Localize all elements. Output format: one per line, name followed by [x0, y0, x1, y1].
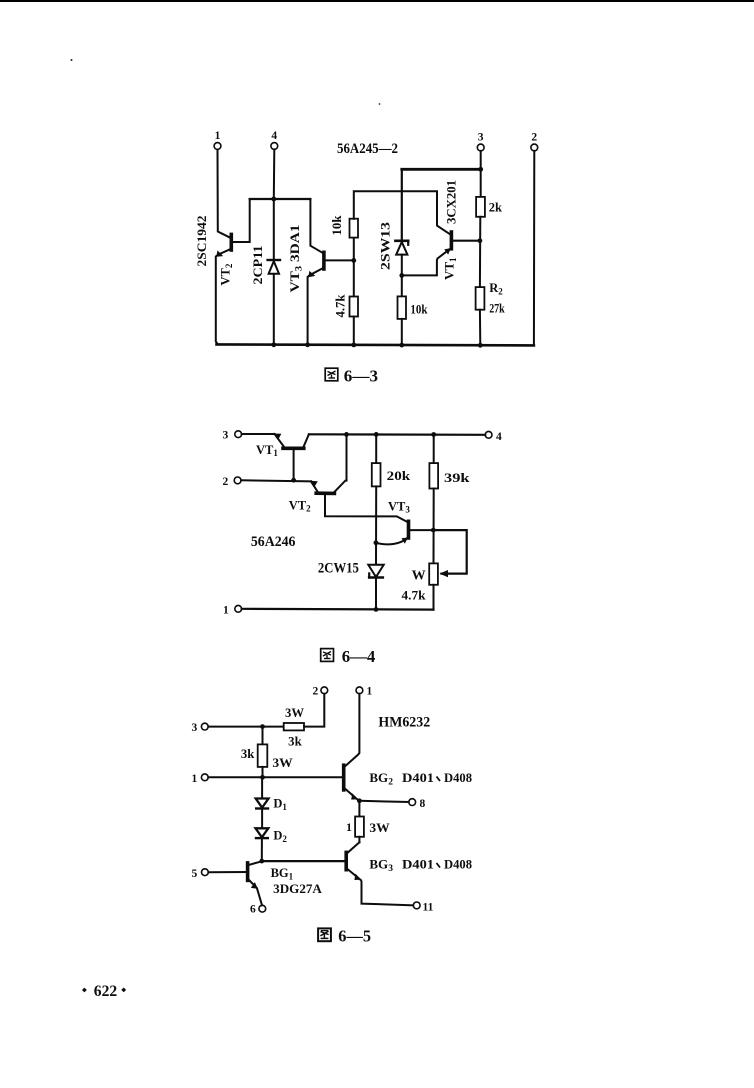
svg-text:2: 2 — [313, 686, 319, 698]
top rail — [309, 433, 485, 436]
resistor R2 27k — [476, 287, 485, 310]
wire terminal3 row — [208, 726, 283, 728]
svg-text:VT3 3DA1: VT3 3DA1 — [287, 225, 304, 293]
svg-text:D408: D408 — [444, 858, 472, 872]
zener 2SW13 branch — [401, 169, 403, 240]
VT3 base wire — [409, 529, 434, 531]
wire terminal 3 branch — [480, 151, 482, 197]
terminal 3 left — [201, 723, 208, 730]
transistor VT3 base bar — [407, 521, 411, 538]
svg-text:27k: 27k — [489, 302, 505, 316]
wire terminal2 to VT2 emitter — [241, 480, 311, 481]
terminal 11 — [413, 902, 420, 909]
transistor VT2 emitter — [311, 481, 318, 492]
svg-text:1: 1 — [215, 130, 221, 142]
svg-text:HM6232: HM6232 — [378, 714, 430, 730]
svg-text:56A245—2: 56A245—2 — [337, 141, 398, 157]
svg-text:4.7k: 4.7k — [334, 294, 348, 317]
svg-text:6—3: 6—3 — [344, 366, 378, 385]
resistor 3k vertical 3W — [262, 727, 264, 745]
svg-text:2: 2 — [223, 476, 229, 488]
svg-text:W: W — [412, 569, 426, 584]
svg-text:3W: 3W — [285, 706, 305, 720]
svg-text:2SC1942: 2SC1942 — [194, 216, 209, 267]
VT2 emitter — [216, 249, 232, 345]
svg-text:2CP11: 2CP11 — [250, 246, 265, 285]
transistor VT1 3CX201 base bar — [450, 232, 454, 249]
junction VT3 emitter at rail — [305, 342, 310, 347]
transistor BG3 base bar — [344, 852, 348, 869]
BG1 base wire — [208, 871, 247, 873]
svg-text:2k: 2k — [489, 201, 502, 215]
zener 2SW13 symbol — [395, 240, 408, 243]
terminal 1 top — [356, 687, 363, 694]
terminal 1 — [235, 605, 242, 612]
wire terminal3 to VT1 emitter — [242, 433, 275, 435]
wire node A horizontal — [250, 198, 311, 200]
zener 2CW15 — [368, 565, 383, 577]
svg-text:2SW13: 2SW13 — [379, 222, 393, 270]
svg-text:4: 4 — [496, 431, 502, 443]
svg-text:10k: 10k — [330, 215, 344, 235]
top wire to terminal 3 — [402, 168, 481, 171]
resistor 2k — [476, 197, 485, 217]
terminal 4 — [271, 143, 278, 150]
svg-text:D408: D408 — [444, 771, 472, 785]
junction 20k on rail — [374, 432, 379, 437]
terminal 8 — [409, 799, 416, 806]
BG3 base wire — [262, 860, 346, 862]
resistor 10k upper — [353, 238, 355, 261]
BG3 collector — [346, 842, 359, 854]
BG2 collector — [344, 694, 360, 768]
svg-text:8: 8 — [420, 798, 426, 810]
terminal 1 — [214, 143, 221, 150]
terminal 2 top — [321, 687, 328, 694]
resistor 3k horizontal 3W — [284, 723, 304, 730]
transistor BG2 base bar — [342, 765, 346, 790]
resistor 10k lower — [398, 296, 407, 319]
VT3 emitter curve — [376, 537, 409, 545]
junction 39k on rail — [431, 432, 436, 437]
node A junction — [271, 197, 276, 202]
resistor 1 ohm 3W — [358, 801, 360, 817]
svg-text:1: 1 — [367, 686, 373, 698]
terminal 4 — [485, 431, 492, 438]
svg-text:6—4: 6—4 — [342, 647, 376, 666]
VT1 collector — [303, 434, 309, 447]
svg-text:D401: D401 — [402, 858, 434, 872]
wire VT2 base to node A — [231, 199, 249, 242]
wiper loop — [433, 530, 466, 574]
node divider junction — [351, 258, 356, 263]
svg-text:3DG27A: 3DG27A — [273, 881, 322, 896]
wire 2CP11 branch — [273, 149, 276, 258]
transistor VT1 emitter — [275, 434, 285, 448]
svg-text:5: 5 — [192, 868, 198, 880]
VT1 base wire — [451, 240, 480, 242]
svg-text:3CX201: 3CX201 — [444, 180, 459, 224]
svg-text:4.7k: 4.7k — [402, 588, 427, 603]
VT2 base lead to VT3 collector — [325, 493, 408, 522]
svg-text:6—5: 6—5 — [338, 927, 371, 946]
wire VT3 base to divider — [324, 259, 354, 261]
svg-text:3: 3 — [192, 722, 198, 734]
wire node A to VT3 collector — [310, 199, 323, 253]
terminal 3 — [477, 144, 484, 151]
transistor VT2 2SC1942 base bar — [230, 234, 234, 250]
svg-text:56A246: 56A246 — [251, 534, 296, 550]
svg-text:1: 1 — [223, 605, 229, 617]
top scan edge line — [0, 0, 754, 2]
svg-text:6: 6 — [250, 904, 256, 916]
transistor BG1 base bar — [246, 863, 250, 881]
resistor 4.7k — [353, 260, 355, 296]
terminal 3 — [235, 431, 242, 438]
svg-text:11: 11 — [423, 902, 434, 914]
svg-text:2CW15: 2CW15 — [318, 561, 359, 577]
svg-text:622: 622 — [94, 983, 118, 1000]
svg-text:3: 3 — [478, 132, 484, 144]
BG1 emitter — [248, 879, 262, 906]
BG3 emitter — [346, 868, 413, 905]
svg-text:2: 2 — [531, 132, 537, 144]
diode D2 — [256, 828, 269, 837]
caption 图 6-3 — [325, 366, 378, 385]
svg-text:3W: 3W — [272, 756, 293, 770]
wire terminal 2 branch — [533, 151, 535, 346]
terminal 6 — [259, 905, 266, 912]
VT1 emitter — [402, 248, 452, 276]
junction zener emitter node — [399, 273, 404, 278]
svg-text:4: 4 — [271, 130, 277, 142]
VT3 emitter — [308, 268, 324, 344]
junction VT2 collector on rail — [344, 432, 349, 437]
svg-text:3k: 3k — [241, 747, 255, 761]
transistor VT1 base bar — [283, 446, 304, 450]
terminal 2 — [531, 144, 538, 151]
resistor 39k branch — [433, 435, 435, 464]
BG2 emitter — [344, 788, 358, 800]
VT2 collector — [334, 434, 347, 492]
svg-text:39k: 39k — [444, 470, 470, 485]
BG1 collector — [248, 861, 262, 865]
terminal 2 — [234, 477, 241, 484]
svg-text:D401: D401 — [402, 771, 434, 785]
VT1 base lead — [293, 448, 295, 480]
wire terminal1 row — [208, 776, 342, 778]
wire to terminal 8 — [359, 801, 408, 802]
wire terminal1 to VT2 collector — [218, 150, 231, 239]
terminal 5 left — [202, 869, 209, 876]
svg-text:3k: 3k — [288, 735, 302, 749]
svg-text:1: 1 — [346, 820, 352, 834]
transistor VT3 3DA1 base bar — [322, 252, 326, 269]
svg-text:3: 3 — [223, 430, 229, 442]
caption 图 6-4 — [321, 647, 376, 666]
svg-text:3W: 3W — [369, 821, 390, 835]
svg-text:10k: 10k — [410, 303, 427, 317]
svg-text:20k: 20k — [387, 468, 411, 483]
transistor VT2 base bar — [316, 491, 334, 495]
resistor 20k branch — [375, 434, 377, 463]
potentiometer W 4.7k — [429, 563, 438, 584]
bottom rail — [217, 344, 534, 345]
caption 图 6-5 — [318, 927, 371, 946]
page number 622 — [82, 983, 126, 1000]
diode chain from node — [261, 777, 263, 798]
speck — [71, 59, 73, 61]
terminal 1 left — [201, 774, 208, 781]
diode 2CP11 — [268, 259, 280, 261]
svg-text:1: 1 — [192, 773, 198, 785]
diode D1 — [256, 799, 269, 808]
bottom rail — [242, 608, 434, 611]
